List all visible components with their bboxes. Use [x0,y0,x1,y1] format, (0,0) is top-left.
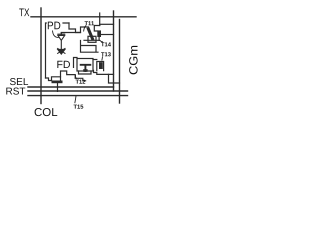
wire bus1 vertical [113,11,115,91]
label PD [47,20,63,30]
wire bus2 vertical [119,20,121,104]
ground symbol [58,50,65,55]
transistor T15 gate bar [52,81,63,84]
wire staircase to bus [94,70,114,74]
leader T14 [100,40,104,42]
wire box to bump [93,59,97,61]
wire RST row line [28,90,128,92]
wire T11 drain [84,39,99,41]
node pixel boundary box left/top edge [46,23,70,78]
wire SEL row line [28,86,114,88]
wire TX feed vertical [99,13,101,26]
transistor gate fill right bump [99,62,103,69]
wire T14 source to bus [101,34,114,36]
transistor bump right [97,62,104,71]
leader T12 [75,75,76,79]
svg-text:T11: T11 [85,21,95,27]
leader T11 [84,26,86,32]
transistor Q T11 gate bar [88,29,92,39]
transistor T13 gate T-bar [81,65,91,71]
wire PD to T11 steps [69,23,89,33]
svg-text:CGm: CGm [126,45,140,75]
wire T15 stem [57,83,59,91]
transistor T15 bump [52,77,61,81]
wire third row line [28,95,128,97]
wire top right to bus [100,23,114,25]
wire photodiode cathode lead [61,33,80,36]
leader T15 [75,96,76,103]
svg-text:TX: TX [19,7,30,19]
node FD contact box [88,36,96,42]
wire TX row line [31,16,136,18]
svg-text:T13: T13 [101,51,112,58]
wire U under box [79,71,92,74]
svg-text:FD: FD [56,59,70,71]
wire T14 below [98,37,100,40]
leader PD [53,31,59,38]
svg-text:T14: T14 [101,42,112,48]
transistor T13 box with gate [77,59,93,72]
wire C-shape upper [81,41,99,53]
wire FD node vertical [74,58,78,68]
transistor T14 gate bar [97,30,101,37]
wire branch to bus2 [109,74,120,83]
svg-text:T15: T15 [73,105,84,111]
node box bottom edge [46,78,52,81]
transistor T14 bump outline [94,26,99,32]
leader T13 [101,57,104,61]
svg-text:T12: T12 [75,79,85,86]
wire staircase FD to T15 [61,71,86,81]
svg-text:PD: PD [47,20,61,32]
svg-text:RST: RST [5,86,25,97]
wire COL column line [40,8,42,104]
diode PD symbol [58,33,65,50]
svg-text:COL: COL [34,107,58,119]
